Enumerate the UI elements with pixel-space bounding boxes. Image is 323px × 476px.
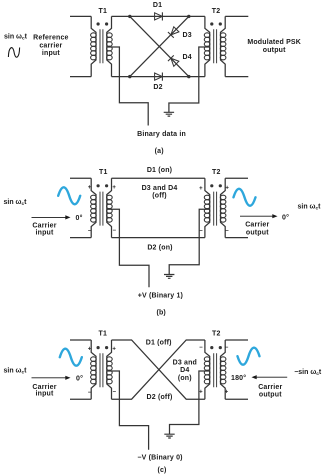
wire: diagonal top-left to bottom-right	[130, 16, 189, 76]
transformer T2 (c)	[204, 340, 226, 399]
svg-text:D4: D4	[180, 367, 189, 374]
svg-text:−: −	[88, 228, 92, 234]
svg-text:(c): (c)	[157, 467, 166, 474]
svg-text:Binary data in: Binary data in	[137, 131, 186, 138]
wire: input stubs (a)	[70, 16, 91, 76]
svg-text:+: +	[199, 390, 203, 396]
svg-text:+: +	[88, 185, 92, 191]
svg-text:+: +	[199, 186, 203, 192]
wire: diagonal bottom-left to top-right	[130, 16, 189, 76]
wire: bottom link D2 (b)	[112, 237, 205, 239]
wire: ring top (a)	[112, 15, 205, 17]
svg-text:input: input	[35, 391, 53, 398]
diode D4	[168, 55, 179, 66]
svg-text:−: −	[225, 228, 229, 234]
wire: ring bottom (a)	[112, 76, 205, 78]
wire: T2 tap to ground (b)	[169, 209, 210, 274]
wire: top link D1 (b)	[112, 177, 205, 179]
wire: cross link BL-TR (c)	[112, 340, 205, 399]
svg-text:T1: T1	[99, 331, 108, 338]
svg-text:sin ωct: sin ωct	[4, 367, 28, 375]
ground (c)	[164, 434, 174, 438]
svg-text:Reference: Reference	[33, 35, 68, 42]
svg-text:D1 (off): D1 (off)	[146, 340, 172, 347]
svg-text:0°: 0°	[76, 214, 83, 222]
diode D3	[168, 26, 179, 37]
svg-text:Carrier: Carrier	[258, 384, 282, 391]
arrow carrier output (c)	[256, 376, 287, 378]
svg-text:−: −	[88, 390, 92, 396]
svg-text:180°: 180°	[231, 374, 246, 382]
svg-text:+: +	[225, 186, 229, 192]
wire: output stubs (b)	[225, 178, 248, 237]
transformer T1 (c)	[91, 340, 113, 399]
transformer T2 (a)	[204, 16, 226, 76]
arrow carrier input (b)	[32, 216, 67, 218]
junction node bottom-right	[187, 75, 190, 78]
svg-text:sin ωct: sin ωct	[4, 33, 28, 41]
svg-text:−V (Binary 0): −V (Binary 0)	[137, 455, 182, 462]
svg-text:(on): (on)	[178, 375, 192, 382]
junction node top-right	[187, 15, 190, 18]
svg-text:sin ωct: sin ωct	[4, 199, 28, 207]
wire: input stubs (b)	[70, 178, 91, 237]
svg-text:T2: T2	[212, 331, 221, 338]
svg-text:carrier: carrier	[39, 42, 62, 49]
diode D2	[155, 73, 163, 81]
svg-text:+: +	[112, 185, 116, 191]
svg-text:T1: T1	[99, 8, 108, 15]
wire: T2 tap to ground (c)	[170, 371, 210, 434]
svg-text:D2: D2	[153, 84, 162, 91]
carrier sine wave (b left)	[58, 187, 80, 204]
svg-text:output: output	[263, 47, 286, 54]
transformer T1 (a)	[91, 16, 113, 76]
svg-text:Carrier: Carrier	[245, 222, 269, 229]
transformer T2 (b)	[204, 178, 226, 237]
wire: output stubs (c)	[225, 340, 248, 399]
wire: cross link TL-BR (c)	[112, 340, 205, 399]
svg-text:(a): (a)	[155, 148, 164, 155]
junction node top-left	[128, 15, 131, 18]
svg-text:+V (Binary 1): +V (Binary 1)	[138, 292, 183, 299]
arrow carrier output (b)	[240, 215, 273, 217]
svg-text:input: input	[42, 50, 60, 57]
wire: T1 centre tap to binary data input	[107, 47, 148, 126]
svg-text:input: input	[35, 229, 53, 236]
wire: output stubs (a)	[225, 16, 248, 76]
svg-text:−: −	[199, 345, 203, 351]
svg-text:T1: T1	[99, 169, 108, 176]
wire: input stubs (c)	[70, 340, 91, 399]
svg-text:D4: D4	[183, 54, 192, 61]
carrier sine wave (c left)	[60, 349, 82, 366]
svg-text:output: output	[246, 229, 269, 236]
transformer T1 (b)	[91, 178, 113, 237]
junction node bottom-left	[128, 75, 131, 78]
svg-text:D2 (on): D2 (on)	[147, 245, 172, 252]
svg-text:(b): (b)	[156, 309, 165, 316]
svg-text:T2: T2	[212, 8, 221, 15]
wire: T2 centre tap to ground (a)	[169, 47, 210, 112]
ground (a)	[164, 112, 174, 116]
ground (b)	[164, 275, 174, 279]
svg-text:D3: D3	[183, 32, 192, 39]
arrow carrier input (c)	[32, 377, 67, 379]
diode D1	[155, 12, 163, 20]
svg-text:+: +	[88, 347, 92, 353]
wire: T1 tap to +V (b)	[107, 209, 149, 287]
svg-text:−: −	[113, 228, 117, 234]
svg-text:−: −	[113, 390, 117, 396]
wire: T1 tap to -V (c)	[107, 371, 149, 450]
carrier sine wave (b right)	[234, 189, 256, 206]
svg-text:output: output	[259, 392, 282, 399]
svg-text:D3 and D4: D3 and D4	[142, 185, 178, 192]
svg-text:+: +	[112, 347, 116, 353]
reference carrier sine symbol	[8, 48, 19, 58]
svg-text:sin ωct: sin ωct	[298, 203, 322, 211]
svg-text:D3 and: D3 and	[173, 359, 197, 366]
svg-text:Modulated PSK: Modulated PSK	[247, 39, 301, 46]
svg-text:D1 (on): D1 (on)	[147, 167, 172, 174]
svg-text:+: +	[225, 390, 229, 396]
svg-text:D1: D1	[153, 2, 162, 9]
inverted carrier sine wave (c right)	[238, 348, 260, 365]
svg-text:0°: 0°	[282, 214, 289, 222]
svg-text:D2 (off): D2 (off)	[147, 394, 173, 401]
svg-text:−: −	[225, 345, 229, 351]
svg-text:(off): (off)	[152, 193, 167, 200]
svg-text:T2: T2	[212, 169, 221, 176]
svg-text:0°: 0°	[76, 375, 83, 383]
